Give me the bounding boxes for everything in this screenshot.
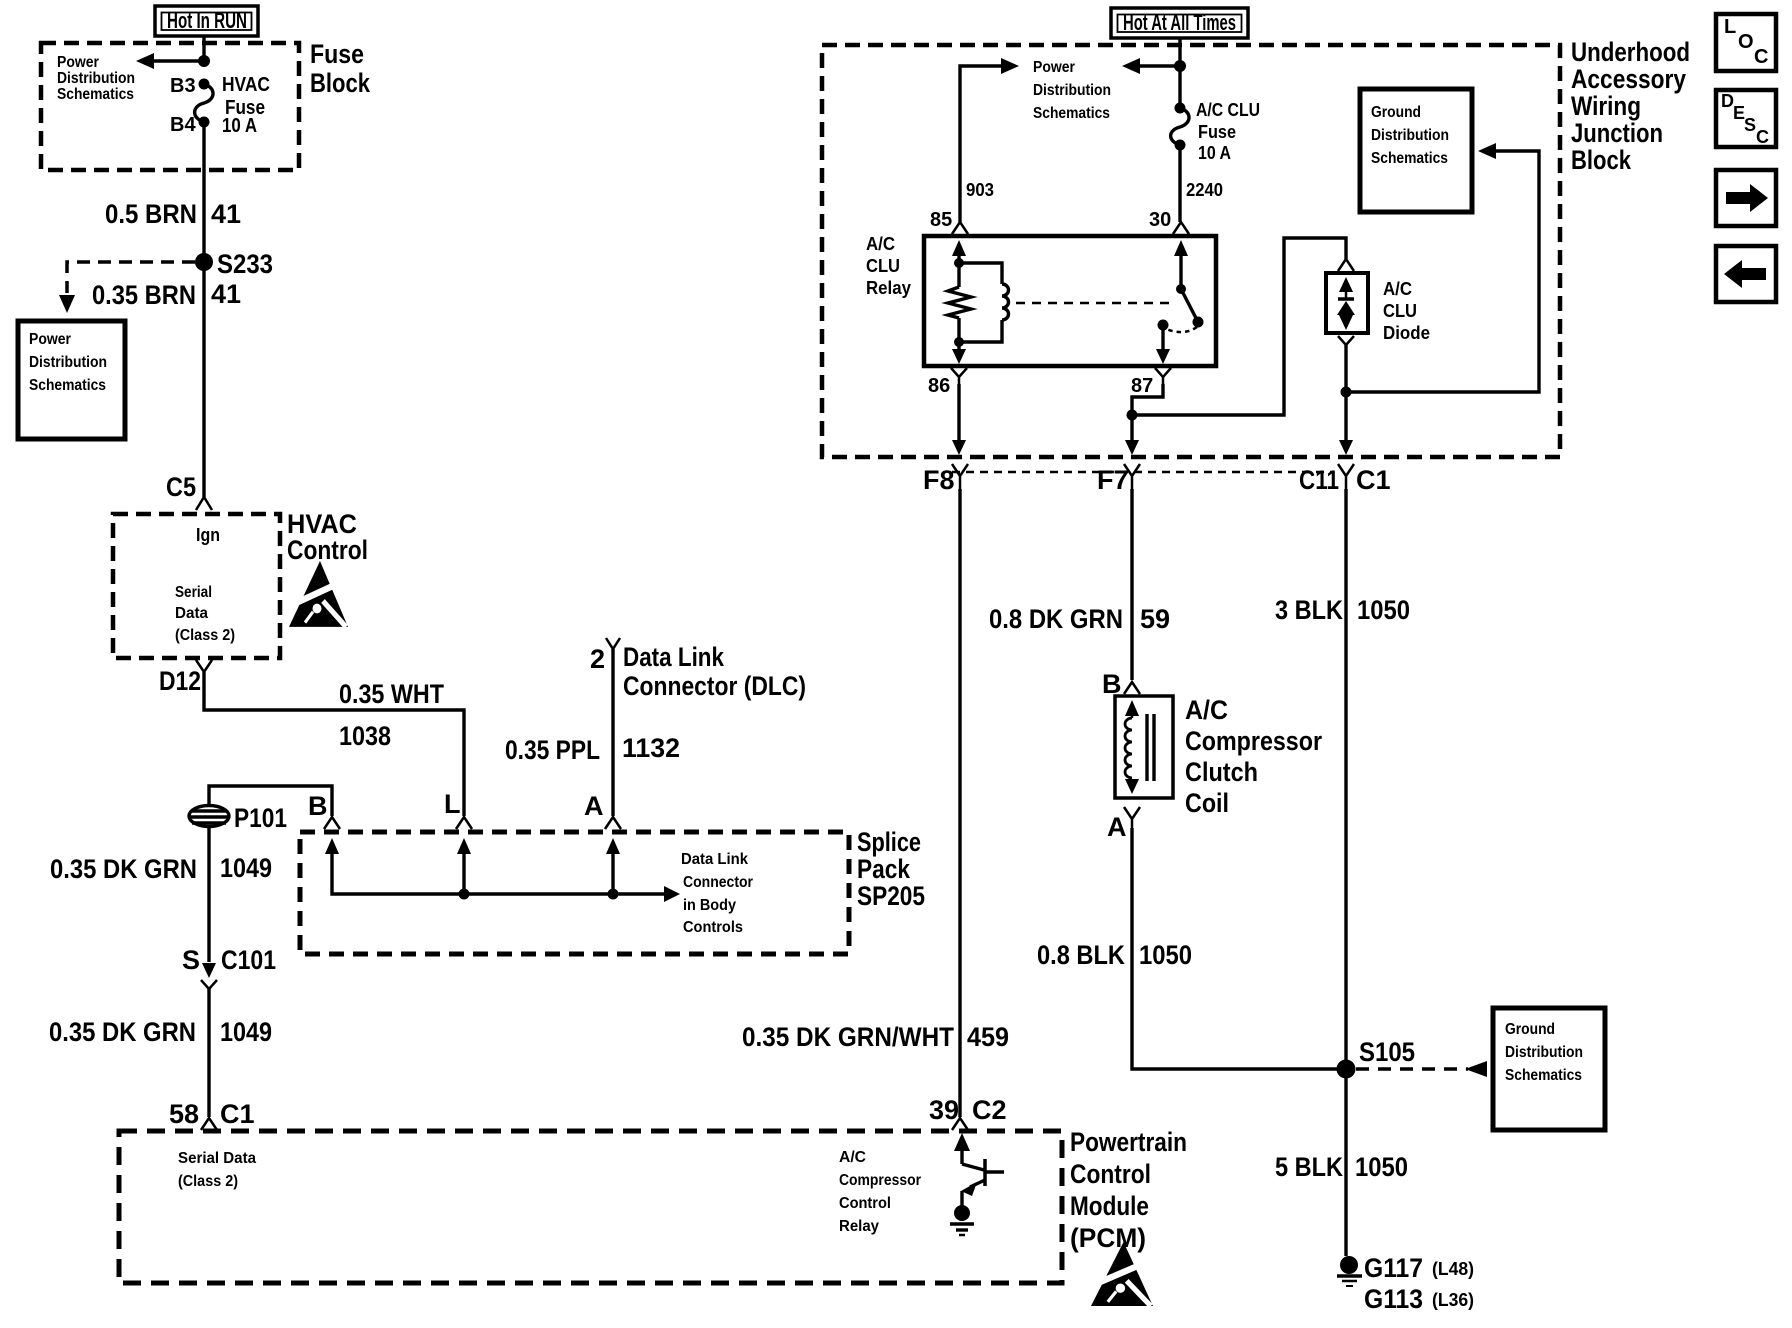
relay terminal 85 [930, 209, 968, 234]
A/C CLU Diode label [1383, 279, 1430, 343]
svg-text:85: 85 [930, 209, 952, 231]
terminal A [584, 791, 621, 829]
ground (PCM internal) [950, 1205, 974, 1235]
dashed reference wire S105 to Ground Distribution [1356, 1061, 1487, 1077]
Splice Pack SP205 dashed box [300, 832, 849, 954]
svg-text:A: A [1107, 812, 1127, 842]
svg-text:P101: P101 [234, 803, 287, 833]
wire to diode feed (right, up and over) [1132, 238, 1346, 415]
svg-text:Fuse: Fuse [1198, 122, 1236, 142]
Underhood Accessory Wiring Junction Block label [1571, 37, 1690, 175]
svg-text:86: 86 [928, 375, 950, 397]
svg-text:(Class 2): (Class 2) [175, 627, 235, 644]
A/C Compressor Clutch Coil label [1185, 695, 1322, 818]
svg-text:C: C [1754, 46, 1768, 68]
svg-text:Schematics: Schematics [1033, 105, 1110, 122]
A/C Compressor Control Relay label [839, 1149, 921, 1235]
svg-text:(Class 2): (Class 2) [178, 1173, 238, 1190]
wire S105 down to ground [1344, 1069, 1347, 1256]
svg-text:Schematics: Schematics [29, 377, 106, 394]
svg-text:C11: C11 [1299, 465, 1339, 495]
diode symbol [1337, 277, 1355, 330]
svg-text:59: 59 [1140, 604, 1170, 634]
connector F7 [1097, 464, 1140, 495]
wire label 0.35 DK GRN 1049 (upper) [50, 853, 272, 884]
svg-text:0.8 DK GRN: 0.8 DK GRN [989, 604, 1123, 634]
HVAC Control dashed box [113, 514, 280, 658]
PCM pin 58 connector C1 [169, 1099, 255, 1130]
wire from Hot In RUN into fuse block [202, 36, 205, 61]
svg-text:Ground: Ground [1371, 104, 1421, 121]
svg-text:L: L [1724, 16, 1736, 38]
svg-text:10 A: 10 A [1198, 143, 1231, 163]
svg-text:CLU: CLU [866, 256, 900, 276]
svg-text:A/C: A/C [839, 1149, 866, 1166]
svg-text:Data: Data [175, 605, 208, 622]
svg-text:C: C [1756, 127, 1769, 147]
wire coil A to S105 [1132, 828, 1346, 1069]
svg-text:SP205: SP205 [857, 881, 925, 911]
svg-text:1038: 1038 [339, 721, 391, 751]
wire label 0.8 BLK 1050 [1037, 940, 1192, 970]
svg-text:1050: 1050 [1357, 595, 1410, 625]
fuse HVAC 10A (S-curve symbol) [195, 84, 213, 122]
svg-text:Schematics: Schematics [1371, 150, 1448, 167]
Fuse Block dashed box [41, 43, 299, 170]
coil terminal A [1107, 807, 1140, 842]
svg-text:1049: 1049 [220, 853, 272, 883]
terminal B [308, 791, 340, 829]
svg-text:41: 41 [211, 199, 241, 229]
svg-text:Block: Block [1571, 145, 1632, 175]
splice pack internal bus [325, 838, 680, 902]
PCM pin 39 connector C2 [929, 1095, 1007, 1130]
svg-text:0.35 WHT: 0.35 WHT [339, 679, 444, 709]
svg-text:Hot In RUN: Hot In RUN [167, 8, 247, 33]
svg-text:Pack: Pack [857, 854, 911, 884]
svg-text:0.35 PPL: 0.35 PPL [505, 735, 600, 765]
wire Hot At All Times down [1178, 38, 1181, 108]
svg-text:0.5 BRN: 0.5 BRN [105, 199, 197, 229]
svg-text:2: 2 [590, 644, 605, 674]
relay coil branch (left, inside relay) [952, 240, 966, 287]
svg-text:Power: Power [1033, 59, 1075, 76]
A/C CLU Diode connector (top) [1338, 259, 1354, 271]
wire F7 down to coil [1130, 489, 1133, 680]
wire label 0.35 DK GRN/WHT 459 [742, 1022, 1009, 1052]
relay terminal 30 [1149, 209, 1189, 234]
svg-text:Ign: Ign [196, 525, 220, 545]
connector C11 / C1 [1299, 464, 1391, 495]
wire P101 to C101 [207, 827, 210, 962]
svg-text:Power: Power [29, 331, 71, 348]
A/C CLU Relay box [924, 236, 1216, 366]
svg-text:58: 58 [169, 1099, 199, 1129]
wire C11 down [1344, 489, 1347, 1069]
ESD sensitive symbol (HVAC control) [289, 561, 348, 627]
svg-text:A: A [584, 791, 604, 821]
svg-text:Data Link: Data Link [681, 851, 748, 868]
wire label 0.35 WHT 1038 [339, 679, 444, 751]
connector F8 [923, 464, 968, 495]
wire to Ground Distribution Schematics (up) [1346, 143, 1539, 392]
svg-text:S: S [182, 945, 200, 975]
svg-text:Relay: Relay [839, 1218, 879, 1235]
resistor (relay coil suppression) [948, 287, 971, 318]
svg-text:0.35 DK GRN: 0.35 DK GRN [50, 854, 197, 884]
wire 86 down to F8 [952, 384, 966, 455]
svg-text:Control: Control [1070, 1159, 1151, 1189]
svg-text:Schematics: Schematics [1505, 1067, 1582, 1084]
svg-text:Hot At All Times: Hot At All Times [1123, 10, 1236, 35]
svg-text:HVAC: HVAC [222, 74, 270, 96]
svg-text:S105: S105 [1359, 1037, 1415, 1067]
svg-text:F8: F8 [923, 465, 955, 495]
junction dot (hot feed) [1174, 60, 1186, 72]
wire diode to C11 [1344, 345, 1347, 441]
svg-text:0.35 DK GRN: 0.35 DK GRN [49, 1017, 196, 1047]
junction dot diode/ground-ref [1341, 387, 1352, 398]
A/C CLU Relay label [866, 234, 911, 298]
arrow left to Power Distribution Schematics [1122, 58, 1180, 74]
node junction dot at fuse block feed [198, 55, 210, 67]
svg-text:87: 87 [1131, 375, 1153, 397]
svg-text:A/C: A/C [866, 234, 895, 254]
clutch coil symbol [1125, 700, 1154, 794]
svg-text:Splice: Splice [857, 827, 921, 857]
svg-text:Module: Module [1070, 1191, 1149, 1221]
svg-text:G113: G113 [1364, 1284, 1423, 1314]
svg-text:0.8 BLK: 0.8 BLK [1037, 940, 1125, 970]
wire F8 down to PCM pin 39 [958, 489, 961, 1117]
svg-text:(L48): (L48) [1432, 1259, 1474, 1279]
splice S233 [195, 249, 273, 279]
wire label 0.35 BRN 41 [92, 279, 241, 310]
splice S105 [1337, 1037, 1416, 1079]
svg-text:(PCM): (PCM) [1070, 1223, 1146, 1253]
wire label 0.35 PPL 1132 [505, 733, 680, 765]
ESD sensitive symbol (PCM) [1091, 1242, 1153, 1306]
Power Distribution Schematics box (left) [18, 321, 125, 439]
svg-text:2240: 2240 [1186, 180, 1223, 200]
arrow down from F7 branch [1125, 415, 1139, 455]
wire fuse to S233 [202, 122, 205, 262]
svg-text:Fuse: Fuse [310, 39, 364, 69]
wire C101 to PCM pin 58 [207, 989, 210, 1117]
svg-text:B: B [308, 791, 328, 821]
svg-text:B4: B4 [170, 114, 196, 136]
wire resistor to bottom node [952, 318, 966, 364]
svg-text:in Body: in Body [683, 897, 736, 914]
svg-text:1132: 1132 [622, 733, 680, 763]
A/C Compressor Clutch Coil box [1115, 696, 1173, 798]
Ground Distribution Schematics box (bottom right) [1493, 1008, 1605, 1130]
svg-text:0.35 BRN: 0.35 BRN [92, 280, 196, 310]
HVAC Fuse 10 A value label [222, 74, 270, 137]
coil terminal B [1102, 669, 1140, 699]
Underhood Accessory Wiring Junction Block dashed box [822, 45, 1560, 457]
svg-text:39: 39 [929, 1095, 959, 1125]
Power Distribution Schematics text (fuse block) [57, 54, 135, 103]
svg-text:459: 459 [967, 1022, 1009, 1052]
connector D12 [159, 660, 212, 696]
svg-text:1050: 1050 [1139, 940, 1192, 970]
svg-text:Distribution: Distribution [1033, 82, 1111, 99]
relay terminal 86 [928, 368, 967, 397]
HVAC Control label [287, 509, 368, 565]
svg-text:Junction: Junction [1571, 118, 1663, 148]
svg-text:Block: Block [310, 68, 371, 98]
Serial Data (Class 2) label (PCM) [178, 1150, 256, 1190]
Hot In RUN label box [155, 6, 258, 36]
svg-text:L: L [444, 789, 461, 819]
svg-text:41: 41 [211, 279, 241, 309]
Hot At All Times label box [1111, 8, 1248, 38]
svg-text:B3: B3 [170, 75, 196, 97]
svg-text:Compressor: Compressor [839, 1172, 921, 1189]
relay switch [1156, 240, 1204, 364]
wire S233 down to C5 [202, 262, 205, 497]
svg-text:C1: C1 [220, 1099, 255, 1129]
dashed wire from S233 to Power Distribution Schematics [59, 262, 195, 313]
svg-text:Wiring: Wiring [1571, 91, 1641, 121]
svg-text:5 BLK: 5 BLK [1275, 1152, 1343, 1182]
svg-text:Connector: Connector [683, 874, 753, 891]
relay terminal 87 [1131, 368, 1171, 397]
svg-text:3 BLK: 3 BLK [1275, 595, 1343, 625]
svg-text:30: 30 [1149, 209, 1171, 231]
svg-text:Control: Control [839, 1195, 891, 1212]
svg-text:Coil: Coil [1185, 788, 1229, 818]
svg-text:Distribution: Distribution [29, 354, 107, 371]
svg-text:C101: C101 [221, 945, 276, 975]
transistor Q (PCM output driver) [954, 1133, 1004, 1206]
Powertrain Control Module (PCM) label [1070, 1127, 1187, 1253]
wire label 5 BLK 1050 [1275, 1152, 1408, 1182]
wire label 0.35 DK GRN 1049 (lower) [49, 1017, 272, 1047]
Data Link Connector (DLC) [590, 638, 806, 816]
svg-text:Diode: Diode [1383, 323, 1430, 343]
Splice Pack SP205 label [857, 827, 925, 911]
svg-text:Power: Power [57, 54, 99, 71]
junction dot F7 branch [1127, 410, 1138, 421]
svg-text:Underhood: Underhood [1571, 37, 1690, 67]
LOC icon [1716, 14, 1776, 71]
Power Distribution Schematics text (junction block) [1033, 59, 1111, 122]
Powertrain Control Module dashed box [119, 1131, 1062, 1283]
svg-text:Control: Control [287, 535, 368, 565]
connector C5 [166, 472, 212, 510]
arrow down C11 into boundary [1339, 440, 1353, 455]
wire label 0.8 DK GRN 59 [989, 604, 1170, 634]
svg-text:Clutch: Clutch [1185, 757, 1258, 787]
Ground Distribution Schematics box (junction block) [1360, 89, 1472, 212]
svg-text:Compressor: Compressor [1185, 726, 1322, 756]
svg-text:S: S [1744, 115, 1756, 135]
svg-text:S233: S233 [217, 249, 273, 279]
svg-text:Distribution: Distribution [57, 70, 135, 87]
svg-text:1050: 1050 [1355, 1152, 1408, 1182]
svg-text:Distribution: Distribution [1505, 1044, 1583, 1061]
wire 87 jog to F7 [1132, 384, 1163, 415]
svg-text:0.35 DK GRN/WHT: 0.35 DK GRN/WHT [742, 1022, 954, 1052]
Fuse Block label [310, 39, 371, 98]
svg-text:Powertrain: Powertrain [1070, 1127, 1187, 1157]
ground G117/G113 [1337, 1253, 1474, 1314]
svg-text:Connector (DLC): Connector (DLC) [623, 671, 806, 701]
svg-text:Relay: Relay [866, 278, 911, 298]
Data Link Connector in Body Controls label [681, 851, 753, 936]
svg-text:G117: G117 [1364, 1253, 1423, 1283]
svg-text:D12: D12 [159, 666, 201, 696]
relay actuation dashed line [1016, 302, 1176, 305]
A/C CLU Diode connector (bottom) [1338, 336, 1354, 345]
svg-text:C2: C2 [972, 1095, 1007, 1125]
svg-text:O: O [1738, 31, 1754, 53]
in-line connector dashed line [952, 471, 1332, 474]
svg-text:Distribution: Distribution [1371, 127, 1449, 144]
connector C101 pin S [182, 945, 276, 989]
wire label 0.5 BRN 41 [105, 199, 241, 229]
svg-text:Serial Data: Serial Data [178, 1150, 256, 1167]
wire label 3 BLK 1050 [1275, 595, 1410, 625]
svg-text:1049: 1049 [220, 1017, 272, 1047]
wire from relay 85 up with arrow right to Power Distribution [960, 58, 1019, 222]
svg-text:A/C: A/C [1185, 695, 1228, 725]
svg-text:F7: F7 [1097, 465, 1129, 495]
A/C CLU Diode box [1326, 273, 1368, 333]
svg-text:Controls: Controls [683, 919, 743, 936]
inductor (relay coil) [959, 263, 1009, 342]
svg-text:Serial: Serial [175, 584, 212, 601]
DESC icon [1716, 90, 1776, 147]
svg-text:C1: C1 [1356, 465, 1391, 495]
prev-page arrow icon [1716, 246, 1776, 302]
svg-text:C5: C5 [166, 472, 196, 502]
A/C CLU Fuse 10 A value label [1196, 100, 1260, 163]
arrow to Power Distribution Schematics (left) [136, 53, 204, 69]
next-page arrow icon [1716, 170, 1776, 226]
svg-text:Accessory: Accessory [1571, 64, 1686, 94]
svg-text:Schematics: Schematics [57, 86, 134, 103]
svg-text:CLU: CLU [1383, 301, 1417, 321]
svg-text:A/C CLU: A/C CLU [1196, 100, 1260, 120]
svg-text:Data Link: Data Link [623, 642, 725, 672]
Serial Data (Class 2) label (HVAC control) [175, 584, 235, 644]
grommet P101 [189, 786, 332, 833]
fuse A/C CLU 10A [1171, 103, 1189, 223]
svg-text:(L36): (L36) [1432, 1290, 1474, 1310]
wire D12 to splice pack terminal L [204, 672, 464, 816]
svg-text:903: 903 [966, 180, 994, 200]
svg-text:A/C: A/C [1383, 279, 1412, 299]
svg-text:Ground: Ground [1505, 1021, 1555, 1038]
svg-text:10 A: 10 A [222, 115, 257, 137]
terminal L [444, 789, 472, 829]
